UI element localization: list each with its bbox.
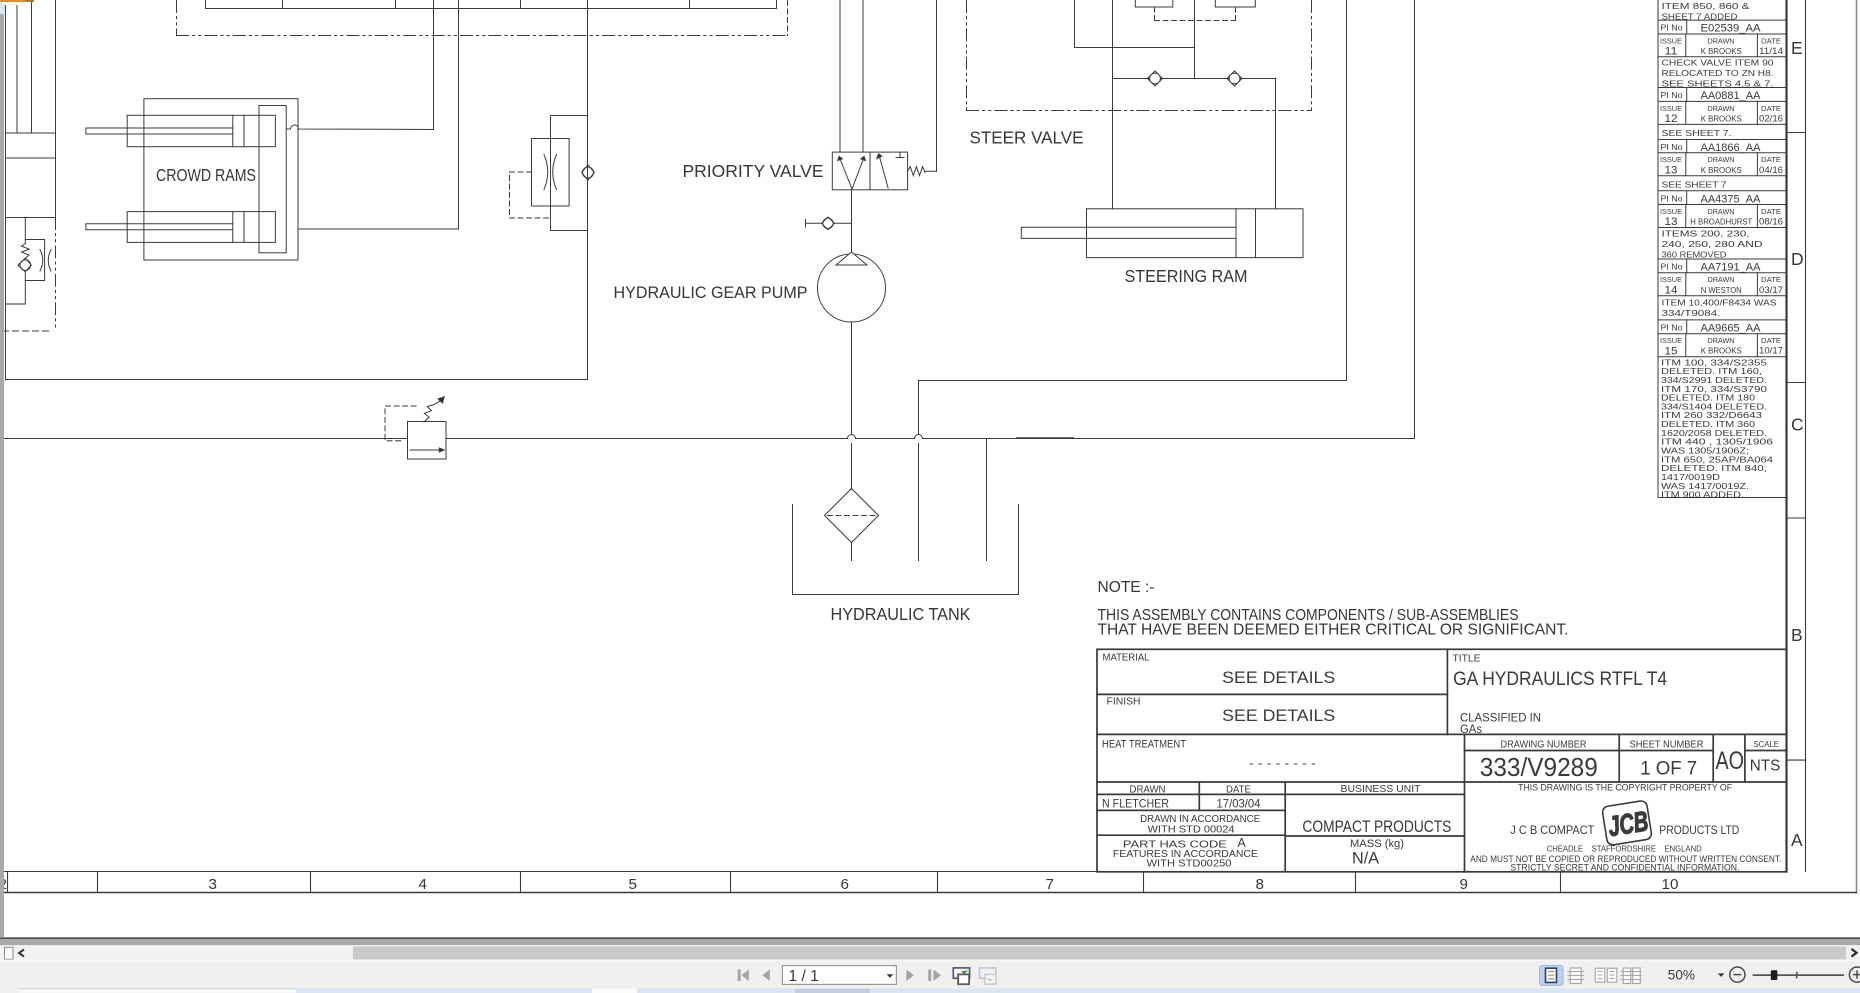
svg-text:COMPACT PRODUCTS: COMPACT PRODUCTS xyxy=(1302,817,1451,836)
ui zoom out xyxy=(1730,967,1745,982)
valve relief valve on bus xyxy=(385,397,446,459)
wire main return bus xyxy=(5,435,1415,439)
wire steer line A xyxy=(1112,1,1114,209)
wire priority valve to pump xyxy=(851,190,853,252)
wire crowd ram B feed drop xyxy=(458,1,460,230)
ui zoom slider xyxy=(1753,974,1844,976)
svg-text:14: 14 xyxy=(1665,284,1678,296)
ui toolbar background xyxy=(0,960,1860,989)
svg-text:AA9665_AA: AA9665_AA xyxy=(1701,323,1762,335)
svg-text:9: 9 xyxy=(1460,876,1468,893)
svg-text:11: 11 xyxy=(1665,46,1678,58)
wire left risers xyxy=(17,1,56,218)
svg-text:E02539_AA: E02539_AA xyxy=(1701,23,1762,35)
ui scrollbar grip box xyxy=(5,947,14,959)
svg-text:ITEM 10,400/F8434 WAS: ITEM 10,400/F8434 WAS xyxy=(1662,298,1777,308)
wire bus doubled segment xyxy=(1017,437,1074,439)
wire dashed stub top xyxy=(787,1,789,36)
svg-text:THIS DRAWING IS THE COPYRIGHT: THIS DRAWING IS THE COPYRIGHT PROPERTY O… xyxy=(1518,782,1732,793)
svg-text:DRAWN: DRAWN xyxy=(1708,275,1735,284)
svg-text:ISSUE: ISSUE xyxy=(1660,275,1682,284)
svg-text:K BROOKS: K BROOKS xyxy=(1701,113,1742,123)
svg-text:DATE: DATE xyxy=(1226,785,1251,796)
wire ram B to drop xyxy=(298,228,459,230)
svg-text:12: 12 xyxy=(1665,113,1678,125)
svg-text:8: 8 xyxy=(1256,876,1264,893)
svg-text:JCB: JCB xyxy=(1606,805,1650,842)
svg-text:ISSUE: ISSUE xyxy=(1660,336,1682,345)
wire steer valve centerline box xyxy=(967,1,1312,111)
svg-text:MATERIAL: MATERIAL xyxy=(1103,653,1150,664)
svg-text:DRAWN: DRAWN xyxy=(1708,36,1735,45)
wire orifice feed drop xyxy=(587,1,589,380)
wire crowd ram A feed drop xyxy=(433,1,435,130)
node left port block xyxy=(6,133,56,218)
pump hydraulic gear pump xyxy=(818,252,886,322)
svg-text:DATE: DATE xyxy=(1761,336,1781,345)
svg-text:B: B xyxy=(1791,625,1803,645)
wire dashed stub bottom-left xyxy=(3,330,49,332)
svg-text:04/16: 04/16 xyxy=(1759,165,1783,176)
cylinder crowd ram lower xyxy=(86,212,276,243)
ui view mode continuous xyxy=(1568,968,1585,984)
svg-text:STEERING RAM: STEERING RAM xyxy=(1125,266,1248,286)
svg-text:RELOCATED TO ZN H8.: RELOCATED TO ZN H8. xyxy=(1662,68,1774,78)
svg-text:SHEET NUMBER: SHEET NUMBER xyxy=(1630,740,1704,751)
svg-text:D: D xyxy=(1791,249,1804,269)
ui horizontal scrollbar thumb xyxy=(0,947,353,960)
svg-text:ISSUE: ISSUE xyxy=(1660,104,1682,113)
svg-text:N WESTON: N WESTON xyxy=(1701,285,1742,295)
svg-text:6: 6 xyxy=(841,876,849,893)
svg-text:DATE: DATE xyxy=(1761,155,1781,164)
svg-text:08/16: 08/16 xyxy=(1759,217,1783,228)
svg-text:SEE SHEETS 4,5 & 7.: SEE SHEETS 4,5 & 7. xyxy=(1662,78,1774,88)
svg-text:AA0881_AA: AA0881_AA xyxy=(1701,90,1762,102)
svg-text:PI No: PI No xyxy=(1661,262,1683,272)
ui view mode two-up continuous xyxy=(1621,968,1642,984)
svg-text:E: E xyxy=(1791,38,1803,58)
svg-text:333/V9289: 333/V9289 xyxy=(1480,754,1598,782)
ui horizontal scrollbar track xyxy=(0,947,1860,960)
svg-text:240, 250, 280 AND: 240, 250, 280 AND xyxy=(1662,239,1763,249)
svg-text:NOTE :-: NOTE :- xyxy=(1098,579,1155,596)
wire pump line to filter xyxy=(851,444,853,490)
svg-text:4: 4 xyxy=(419,876,427,893)
wire pilot return riser xyxy=(936,1,938,172)
svg-text:- - - - - - - -: - - - - - - - - xyxy=(1249,756,1316,770)
valve priority valve xyxy=(832,152,936,190)
svg-text:SEE SHEET 7.: SEE SHEET 7. xyxy=(1662,128,1732,138)
ui next page button xyxy=(906,970,914,982)
ui view mode two-up xyxy=(1595,968,1617,982)
svg-text:CHECK VALVE ITEM 90: CHECK VALVE ITEM 90 xyxy=(1662,58,1774,68)
wire priority valve feeds xyxy=(840,1,863,153)
node pilot box left xyxy=(1135,1,1173,8)
svg-text:334/T9084.: 334/T9084. xyxy=(1662,308,1721,318)
svg-text:ITEMS 200, 230,: ITEMS 200, 230, xyxy=(1662,229,1750,239)
wire centerline enclosure top xyxy=(177,1,788,36)
svg-text:DRAWN: DRAWN xyxy=(1708,336,1735,345)
svg-text:DRAWN: DRAWN xyxy=(1708,104,1735,113)
wire top manifold bus xyxy=(206,1,777,9)
svg-text:PI No: PI No xyxy=(1661,193,1683,203)
svg-text:K BROOKS: K BROOKS xyxy=(1701,46,1742,56)
svg-text:360 REMOVED: 360 REMOVED xyxy=(1662,249,1727,259)
wire pump to bus xyxy=(851,322,853,434)
wire steer line B xyxy=(1275,79,1277,209)
window orange fragment top-left xyxy=(0,0,25,2)
wire pilot dashed links xyxy=(1155,7,1236,21)
wire right return riser xyxy=(919,1,1347,381)
ui first page button xyxy=(738,970,749,982)
ui previous view icon xyxy=(953,968,969,984)
filter suction strainer xyxy=(825,489,879,561)
svg-text:AA7191_AA: AA7191_AA xyxy=(1701,262,1762,274)
svg-text:A: A xyxy=(1237,836,1246,850)
svg-text:AA1866_AA: AA1866_AA xyxy=(1701,142,1762,154)
svg-text:GA HYDRAULICS RTFL T4: GA HYDRAULICS RTFL T4 xyxy=(1453,668,1667,690)
svg-text:DATE: DATE xyxy=(1761,104,1781,113)
check valve steer left xyxy=(1148,71,1163,86)
svg-text:DATE: DATE xyxy=(1761,36,1781,45)
svg-text:GAs: GAs xyxy=(1460,723,1482,736)
svg-text:PI No: PI No xyxy=(1661,90,1683,100)
wire far right drop xyxy=(1414,1,1416,439)
ui page number box xyxy=(782,966,896,985)
node pilot box right xyxy=(1215,1,1255,8)
wire check line xyxy=(1113,78,1276,80)
ui zoom in xyxy=(1849,967,1860,982)
ui taskbar strip xyxy=(0,988,1860,993)
svg-text:ITM 900 ADDED.: ITM 900 ADDED. xyxy=(1661,490,1744,500)
border zone letter column xyxy=(1787,1,1806,872)
window left edge strip xyxy=(0,14,4,937)
svg-text:H BROADHURST: H BROADHURST xyxy=(1690,217,1753,227)
svg-text:15: 15 xyxy=(1665,345,1678,357)
cylinder crowd ram upper xyxy=(86,115,276,146)
svg-text:PRODUCTS LTD: PRODUCTS LTD xyxy=(1659,824,1739,837)
cylinder crowd rams manifold xyxy=(144,99,298,260)
ui prev page button xyxy=(762,970,770,982)
ui gray band xyxy=(0,939,1860,945)
svg-text:SCALE: SCALE xyxy=(1754,739,1780,749)
svg-text:ISSUE: ISSUE xyxy=(1660,207,1682,216)
border zone number strip xyxy=(1,872,1857,893)
title block frame xyxy=(1097,649,1787,872)
wire steer feed drop xyxy=(1194,1,1196,79)
svg-text:DRAWN: DRAWN xyxy=(1708,155,1735,164)
svg-text:THAT HAVE BEEN DEEMED EITHER C: THAT HAVE BEEN DEEMED EITHER CRITICAL OR… xyxy=(1098,621,1569,638)
wire steer feed left xyxy=(1075,1,1195,48)
svg-text:AO: AO xyxy=(1716,748,1745,775)
node left edge line xyxy=(5,1,7,381)
svg-text:A: A xyxy=(1791,830,1803,850)
svg-text:DATE: DATE xyxy=(1761,207,1781,216)
svg-text:CHEADLE STAFFORDSHIRE EN: CHEADLE STAFFORDSHIRE ENGLAND xyxy=(1547,844,1702,854)
table revision history xyxy=(1658,1,1787,872)
ui next view icon xyxy=(980,968,997,984)
svg-text:J C B COMPACT: J C B COMPACT xyxy=(1510,824,1594,837)
svg-text:10: 10 xyxy=(1662,876,1679,893)
svg-text:SHEET 7 ADDED: SHEET 7 ADDED xyxy=(1662,11,1738,21)
svg-text:N/A: N/A xyxy=(1352,849,1380,868)
svg-text:13: 13 xyxy=(1665,164,1678,176)
svg-text:DATE: DATE xyxy=(1761,275,1781,284)
svg-text:ISSUE: ISSUE xyxy=(1660,155,1682,164)
svg-text:N FLETCHER: N FLETCHER xyxy=(1102,797,1169,811)
svg-text:PRIORITY VALVE: PRIORITY VALVE xyxy=(683,161,824,181)
svg-text:DRAWN: DRAWN xyxy=(1130,785,1166,796)
svg-text:1 / 1: 1 / 1 xyxy=(789,968,819,985)
title block texts xyxy=(1102,653,1781,874)
svg-text:K BROOKS: K BROOKS xyxy=(1701,346,1742,356)
svg-text:BUSINESS UNIT: BUSINESS UNIT xyxy=(1341,784,1422,795)
svg-text:PI No: PI No xyxy=(1661,23,1683,33)
svg-text:SEE SHEET 7: SEE SHEET 7 xyxy=(1662,180,1727,190)
svg-text:CROWD RAMS: CROWD RAMS xyxy=(156,165,256,185)
ui content bottom border xyxy=(0,937,1860,939)
svg-text:ITEM 850, 860 &: ITEM 850, 860 & xyxy=(1662,1,1750,11)
wire ram A to drop xyxy=(286,125,433,130)
svg-text:SEE DETAILS: SEE DETAILS xyxy=(1222,706,1335,725)
svg-text:7: 7 xyxy=(1046,876,1054,893)
ui scrollbar left arrow xyxy=(19,950,24,957)
svg-text:HYDRAULIC GEAR PUMP: HYDRAULIC GEAR PUMP xyxy=(614,283,808,302)
svg-text:50%: 50% xyxy=(1668,968,1695,983)
svg-text:FINISH: FINISH xyxy=(1107,697,1141,708)
svg-text:10/17: 10/17 xyxy=(1759,346,1783,357)
svg-text:11/14: 11/14 xyxy=(1759,46,1784,57)
svg-text:03/17: 03/17 xyxy=(1759,285,1783,296)
svg-text:WITH STD00250: WITH STD00250 xyxy=(1147,859,1232,870)
svg-text:WITH STD 00024: WITH STD 00024 xyxy=(1148,825,1235,836)
svg-text:AA4375_AA: AA4375_AA xyxy=(1701,193,1762,205)
tank hydraulic tank xyxy=(793,505,1019,595)
svg-text:DRAWN: DRAWN xyxy=(1708,207,1735,216)
svg-text:STEER VALVE: STEER VALVE xyxy=(970,128,1084,148)
wire tank drain drop xyxy=(986,439,988,561)
wire centerline enclosure left xyxy=(55,218,57,332)
ui last page button xyxy=(928,970,941,982)
border right edge xyxy=(1856,1,1858,893)
svg-text:K BROOKS: K BROOKS xyxy=(1701,165,1742,175)
svg-text:C: C xyxy=(1791,415,1804,435)
svg-text:TITLE: TITLE xyxy=(1453,654,1481,665)
check valve left pilot assembly xyxy=(6,218,52,305)
check valve pump inlet xyxy=(806,217,852,230)
svg-text:1 OF 7: 1 OF 7 xyxy=(1640,758,1697,780)
wire enclosure bottom xyxy=(6,379,588,381)
svg-text:ISSUE: ISSUE xyxy=(1660,36,1682,45)
check valve steer right xyxy=(1227,71,1242,86)
svg-text:NTS: NTS xyxy=(1750,758,1781,775)
svg-text:HEAT TREATMENT: HEAT TREATMENT xyxy=(1102,739,1186,751)
logo JCB xyxy=(1602,800,1653,846)
svg-text:PI No: PI No xyxy=(1661,323,1683,333)
svg-text:PI No: PI No xyxy=(1661,142,1683,152)
svg-text:SEE DETAILS: SEE DETAILS xyxy=(1222,668,1335,687)
svg-text:3: 3 xyxy=(209,876,217,893)
ui scrollbar right button xyxy=(1846,947,1860,960)
cylinder steering ram xyxy=(1021,209,1303,258)
ui view mode single page active xyxy=(1540,966,1564,986)
svg-text:02/16: 02/16 xyxy=(1759,113,1783,124)
svg-text:13: 13 xyxy=(1665,216,1678,228)
svg-text:HYDRAULIC TANK: HYDRAULIC TANK xyxy=(831,604,971,624)
svg-text:DRAWING NUMBER: DRAWING NUMBER xyxy=(1501,740,1587,751)
wire tank return drop xyxy=(918,381,920,561)
svg-text:17/03/04: 17/03/04 xyxy=(1217,797,1261,811)
svg-text:5: 5 xyxy=(629,876,637,893)
valve flow-control orifice assembly xyxy=(510,116,595,231)
